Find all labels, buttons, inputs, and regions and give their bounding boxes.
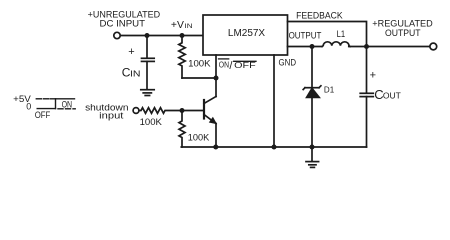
wire ON/OFF pin bbox=[215, 55, 217, 78]
node VIN junction bbox=[180, 33, 185, 38]
node GND pin junction bbox=[272, 145, 277, 150]
svg-text:OUTPUT: OUTPUT bbox=[385, 28, 421, 38]
svg-text:IN: IN bbox=[185, 23, 193, 30]
svg-text:LM257X: LM257X bbox=[228, 28, 266, 39]
label CIN bbox=[122, 66, 141, 80]
svg-text:IN: IN bbox=[130, 70, 141, 79]
svg-text:100K: 100K bbox=[140, 117, 162, 127]
wire feedback bbox=[288, 22, 367, 47]
waveform low dashed bbox=[58, 108, 75, 110]
svg-text:input: input bbox=[99, 110, 124, 120]
inductor L1 bbox=[322, 42, 350, 47]
label COUT bbox=[374, 87, 401, 102]
svg-text:DC INPUT: DC INPUT bbox=[100, 19, 146, 29]
svg-text:+: + bbox=[370, 70, 376, 82]
wire ground rail bbox=[181, 146, 366, 148]
svg-text:OUTPUT: OUTPUT bbox=[289, 30, 322, 40]
wire L1 to output terminal bbox=[349, 46, 430, 48]
node D1 junction bbox=[310, 44, 315, 49]
capacitor COUT bbox=[360, 93, 373, 96]
node emitter junction bbox=[213, 145, 218, 150]
resistor R2 100K (shutdown series) bbox=[139, 108, 182, 114]
wire COUT bottom bbox=[366, 97, 368, 147]
svg-text:0: 0 bbox=[26, 102, 31, 112]
label +REGULATED OUTPUT bbox=[372, 19, 433, 38]
svg-text:L1: L1 bbox=[337, 29, 346, 39]
svg-text:+V: +V bbox=[171, 20, 184, 31]
overline OFF bbox=[234, 60, 256, 62]
label shutdown input bbox=[85, 102, 128, 120]
diode D1 schottky bbox=[303, 86, 321, 98]
svg-text:/: / bbox=[229, 60, 233, 72]
svg-text:OFF: OFF bbox=[35, 110, 51, 120]
svg-text:OFF: OFF bbox=[234, 61, 256, 70]
svg-text:ON: ON bbox=[219, 60, 229, 70]
transistor Q1 collector wire bbox=[215, 78, 217, 97]
svg-text:FEEDBACK: FEEDBACK bbox=[296, 11, 343, 21]
waveform 5V dashed bbox=[36, 98, 49, 100]
label ON/OFF pin bbox=[219, 60, 256, 73]
wire CIN bottom bbox=[146, 61, 148, 89]
svg-text:ON: ON bbox=[62, 99, 73, 109]
waveform low level bbox=[37, 108, 55, 110]
wire D1 bottom bbox=[311, 97, 313, 147]
wire COUT top bbox=[366, 47, 368, 93]
ground symbol bottom bbox=[306, 147, 319, 167]
svg-text:OUT: OUT bbox=[383, 91, 401, 100]
waveform high level bbox=[51, 98, 75, 100]
node base junction bbox=[180, 108, 185, 113]
ground under CIN bbox=[141, 90, 154, 96]
node ground symbol junction bbox=[310, 145, 315, 150]
resistor R1 100K (VIN to ON/OFF) bbox=[179, 36, 185, 79]
label +UNREGULATED DC INPUT bbox=[88, 9, 161, 28]
svg-text:100K: 100K bbox=[188, 58, 211, 68]
svg-text:100K: 100K bbox=[188, 132, 210, 142]
svg-text:GND: GND bbox=[279, 57, 297, 67]
shutdown terminal bbox=[133, 108, 139, 114]
wire CIN top bbox=[146, 36, 148, 58]
capacitor CIN bbox=[142, 58, 155, 61]
node ON/OFF junction bbox=[214, 76, 219, 81]
output terminal bbox=[430, 43, 437, 50]
wire input to VIN bbox=[121, 35, 203, 37]
wire emitter bbox=[215, 124, 217, 148]
wire base bbox=[182, 110, 204, 112]
label +VIN bbox=[171, 20, 193, 31]
wire jog R1 to ON/OFF node bbox=[182, 77, 216, 79]
node L1/feedback/COUT junction bbox=[364, 44, 369, 49]
svg-text:D1: D1 bbox=[324, 85, 335, 95]
wire D1 top bbox=[311, 47, 313, 88]
waveform step edge bbox=[55, 99, 57, 109]
wire GND pin bbox=[273, 55, 275, 147]
resistor R3 100K (base to ground) bbox=[179, 111, 185, 148]
node CIN junction bbox=[145, 33, 150, 38]
svg-text:+: + bbox=[128, 46, 134, 58]
IC U1 LM257X bbox=[203, 15, 288, 55]
wire output pin bbox=[288, 46, 323, 48]
transistor Q1 bbox=[204, 97, 216, 124]
overline ON bbox=[219, 58, 229, 60]
input terminal bbox=[114, 32, 120, 38]
